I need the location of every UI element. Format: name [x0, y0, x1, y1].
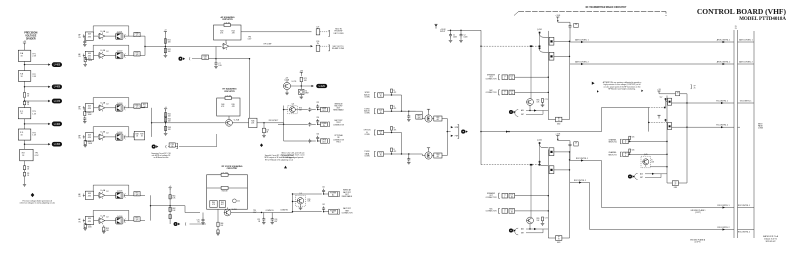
wire A from box to pin row 1 [241, 31, 312, 33]
wire to op-amp [94, 54, 100, 56]
wire main bus TX [547, 31, 549, 120]
node connector tick [82, 34, 84, 38]
wire supply rail TX [558, 21, 570, 23]
transistor Q9 dashed enclosure [296, 195, 306, 206]
svg-text:J1: J1 [504, 194, 506, 196]
connector box channel A [623, 139, 628, 143]
svg-text:CONN: CONN [364, 113, 370, 115]
net tag BIAS mid block [152, 145, 159, 149]
svg-text:COMM 1N: COMM 1N [266, 210, 275, 212]
svg-text:C36: C36 [316, 134, 319, 136]
op-amp U-3B [98, 133, 105, 140]
svg-text:R63 1M: R63 1M [222, 191, 228, 193]
svg-text:RXCONTRL 1: RXCONTRL 1 [738, 205, 750, 207]
wire rowB [293, 211, 322, 213]
wire mosfet out [124, 54, 145, 56]
wire gate net from DATA bus [481, 131, 602, 133]
resistor R105 divider box 3 [18, 108, 31, 119]
wire dashes pin row 1 [320, 31, 329, 33]
wire MIC row TX [515, 91, 549, 93]
junction marker diamond [31, 193, 35, 197]
svg-text:CONN: CONN [364, 155, 370, 157]
wire mosfet out [124, 136, 145, 138]
boundary line RF end drop [665, 12, 667, 16]
svg-text:U-70A: U-70A [234, 118, 240, 121]
svg-text:RF TRANSMITTER MAGIC CIRCUITRY: RF TRANSMITTER MAGIC CIRCUITRY [586, 6, 627, 9]
svg-text:1/2: 1/2 [106, 216, 108, 218]
svg-text:U-70C: U-70C [232, 209, 238, 211]
wire output bus TX [569, 41, 571, 119]
wire mosfet out [124, 35, 145, 37]
resistor R103 inline [23, 93, 25, 98]
component box 29 subcircuit [676, 92, 680, 96]
svg-text:+13: +13 [657, 89, 660, 91]
wire input row [384, 153, 402, 155]
svg-text:C86: C86 [632, 149, 635, 151]
wire merge Q11 Q12 [446, 119, 448, 156]
svg-text:SET: SET [521, 114, 524, 116]
svg-text:TP: TP [674, 182, 676, 184]
resistor R71 pull-up [300, 77, 302, 81]
power +9 Q12 [427, 148, 430, 150]
svg-text:+9: +9 [164, 30, 166, 32]
node connector tick [82, 106, 84, 110]
svg-text:1/2: 1/2 [106, 133, 108, 135]
svg-text:1N: 1N [511, 212, 513, 214]
svg-text:Q-104: Q-104 [117, 132, 123, 134]
resistor stack above row S-2 [391, 109, 393, 111]
wire tap to V-REF1 [25, 64, 49, 66]
resistor stack above row S-4 [391, 152, 393, 154]
svg-text:R52: R52 [88, 225, 91, 227]
wire to op-amp [94, 220, 100, 222]
wire supply feed [448, 29, 482, 31]
label RX CONTROL 2 cont [738, 229, 755, 231]
wire M6 out [672, 126, 687, 128]
svg-text:DIVIDER: DIVIDER [26, 38, 36, 41]
wire gate chain RX [481, 164, 539, 166]
resistor boxes Q12 output [434, 153, 442, 158]
capacitor C32 stack row1 [316, 104, 319, 108]
transistor Q7 with +5V [283, 82, 290, 89]
svg-text:S-4: S-4 [379, 153, 382, 155]
svg-text:IN: IN [380, 155, 382, 157]
net tag bottom block [174, 222, 181, 226]
svg-text:R7 to R Board in Rx adjoining: R7 to R Board in Rx adjoining circuit [265, 158, 294, 161]
svg-text:C22: C22 [237, 201, 240, 203]
resistor R32 under input 3 [84, 108, 86, 111]
svg-text:ANTCONTRL 2: ANTCONTRL 2 [739, 61, 752, 64]
wire Q12 out [432, 155, 434, 157]
mosfet pair Q-106 [116, 218, 123, 224]
resistor R104 inline [23, 101, 25, 105]
resistor R107 divider box 5 [20, 149, 33, 161]
svg-text:4K7: 4K7 [437, 119, 440, 121]
capacitor C7 on U2 minus input [215, 47, 217, 62]
wire op-amp to mosfet [105, 35, 116, 37]
power +9V pull-up column [300, 72, 303, 74]
wire to mosfet Q11 [409, 110, 423, 112]
connector pin box top row [316, 45, 320, 51]
connector boxes MIC TX [502, 90, 508, 95]
svg-text:COMM IN: COMM IN [280, 210, 288, 212]
wire mosfet out [124, 194, 145, 196]
wire feedback loop U-3B [93, 126, 129, 128]
net tag V-REF4 [48, 122, 62, 127]
capacitor C52 row34 [408, 154, 410, 157]
wire M2 out TX [554, 55, 570, 57]
connector box S-1 [378, 93, 384, 97]
net tag MOD-ADJ row [178, 57, 185, 61]
resistor R81 row12 [416, 115, 422, 120]
resistor R11 to ground under input 2 [84, 55, 86, 57]
wire block2 output [152, 122, 225, 124]
svg-text:29: 29 [575, 24, 577, 26]
wire Q25 to bus [650, 166, 667, 168]
svg-text:C34: C34 [316, 117, 319, 119]
junction marker note arrow left [592, 82, 595, 85]
svg-text:SELECT A: SELECT A [608, 141, 617, 144]
svg-text:1V: 1V [558, 120, 560, 122]
connector boxes SPKR RX [502, 193, 508, 198]
svg-text:1: 1 [504, 78, 505, 80]
wire subcircuit rail [659, 93, 687, 95]
capacitor C33 row2 [308, 122, 311, 126]
wire main bus RX [547, 149, 549, 238]
resistor R52 under row 6 input [84, 221, 86, 224]
wire mod-adj row [192, 58, 202, 60]
wire M1 out TX [554, 40, 570, 42]
svg-text:Q-106: Q-106 [117, 216, 123, 218]
wire comm input [278, 123, 284, 125]
svg-text:U-453: U-453 [54, 144, 61, 146]
op-amp U-4A [98, 192, 105, 199]
capacitor C23 to ground [263, 213, 265, 218]
wire tap to V-REF2 [25, 86, 49, 88]
resistor network U-1B input [85, 51, 93, 59]
wire output bus RX [569, 152, 571, 238]
svg-text:C23: C23 [257, 219, 260, 221]
svg-text:POWER: POWER [330, 210, 337, 212]
wire input [83, 54, 87, 56]
svg-text:1/2: 1/2 [106, 104, 108, 106]
label mux out 1 [451, 126, 453, 128]
svg-text:U-463: U-463 [54, 124, 61, 126]
resistor R26 on mod-adj [202, 55, 209, 59]
ground divider bottom [23, 185, 26, 187]
svg-text:S-3: S-3 [379, 131, 382, 133]
op-amp U2 comparator [222, 43, 229, 50]
node connector tick [82, 54, 84, 58]
wire to op-amp [94, 35, 100, 37]
svg-text:CONNECTOR: CONNECTOR [342, 212, 354, 214]
wire join rows 1-2 [401, 95, 403, 111]
svg-text:TXCONTRL 1: TXCONTRL 1 [740, 101, 752, 103]
svg-text:UNIT CONN: UNIT CONN [334, 33, 344, 35]
power +9V rail top of divider [23, 43, 26, 45]
resistor stack above row S-1 [391, 93, 393, 95]
svg-text:U-709: U-709 [292, 81, 297, 83]
svg-text:IN: IN [380, 133, 382, 135]
junction marker note tick bottom-left [597, 90, 599, 92]
svg-text:+13.8: +13.8 [555, 134, 560, 136]
wire row2 [284, 123, 308, 125]
svg-text:X1: X1 [305, 90, 307, 92]
svg-text:Q-103: Q-103 [117, 103, 123, 105]
transistor Q15 RF voice [224, 209, 231, 216]
divider RV2 on node B [165, 111, 167, 134]
net tag V-REF3 [48, 99, 62, 104]
wire row1 [295, 109, 308, 111]
mosfet M2 TX [539, 47, 541, 49]
capacitor C12 under input 3 [83, 116, 86, 120]
wire subcircuit main bus [666, 96, 668, 184]
wire MIC row RX [515, 210, 549, 212]
wire feedback loop U-4B [93, 209, 129, 211]
wire SPKR row TX [515, 76, 549, 78]
wire RT output [232, 122, 248, 124]
svg-text:4K7: 4K7 [221, 204, 224, 206]
resistor box RT output [249, 118, 257, 127]
svg-text:OUT: OUT [322, 110, 325, 112]
wire RX CONTROL 2 [570, 182, 590, 184]
svg-text:Q-101: Q-101 [117, 31, 123, 33]
resistor R37 second output row 3 [142, 103, 148, 107]
wire to op-amp [94, 194, 100, 196]
net tag DATA bus [461, 130, 468, 134]
mosfet pair Q-103 [116, 105, 123, 111]
wire op-amp to mosfet [105, 107, 116, 109]
svg-text:SET: SET [640, 177, 643, 179]
connector boxes MIC RX [502, 209, 508, 214]
svg-text:U-473: U-473 [54, 101, 61, 103]
svg-text:1/2: 1/2 [106, 51, 108, 53]
svg-text:C73: C73 [545, 99, 548, 101]
svg-text:R66: R66 [220, 223, 223, 225]
resistor R16 output [134, 52, 140, 56]
wire tap to V-REF5 [25, 143, 49, 145]
wire channel B row [628, 153, 667, 155]
node connector tick [82, 219, 84, 223]
connector box channel B [623, 152, 628, 156]
wire row3 [284, 140, 308, 142]
svg-text:MODEL PTTD4018A: MODEL PTTD4018A [739, 17, 786, 22]
capacitor C16 below RT output [263, 122, 264, 123]
svg-text:475: 475 [136, 35, 139, 37]
wire feedback box RT block [217, 98, 240, 116]
wire input [83, 107, 87, 109]
svg-text:C42: C42 [322, 204, 325, 206]
capacitor C61 inline RX [569, 141, 571, 143]
op-amp U-3A [98, 104, 105, 111]
svg-text:4K7: 4K7 [437, 156, 440, 158]
svg-text:KAP6105TLTL-A: KAP6105TLTL-A [763, 235, 779, 238]
resistor network U-3B input [85, 133, 93, 141]
svg-text:(2.5PT): (2.5PT) [695, 242, 701, 244]
svg-text:29: 29 [735, 28, 737, 30]
connector box S-2 [378, 109, 384, 113]
svg-text:47K: 47K [394, 129, 397, 131]
wire feedback loop U-3A [93, 97, 129, 99]
component box 29 TX [574, 23, 578, 27]
svg-text:CONN: CONN [758, 128, 764, 130]
connector pin box row 1 [316, 29, 320, 35]
crystal Y1 below node [299, 89, 304, 94]
svg-text:TP: TP [693, 85, 695, 87]
wire summing junction block2 [151, 108, 153, 137]
junction arrow top row [311, 45, 313, 47]
svg-text:R95: R95 [537, 218, 540, 220]
wire subcircuit out 2 [687, 126, 734, 128]
wire subcircuit out bus [686, 94, 688, 183]
capacitor C102 supply bypass [460, 30, 462, 33]
wire RF voice feedback box [207, 175, 248, 209]
wire SPKR row RX [515, 195, 549, 197]
power supply input arrow [434, 24, 437, 28]
resistor R101 divider box 1 [18, 50, 31, 61]
svg-text:U-429: U-429 [319, 86, 326, 88]
wire RT to comm [257, 122, 284, 124]
svg-text:C21 10N: C21 10N [221, 172, 228, 174]
svg-text:TP: TP [558, 118, 560, 120]
transistor Q21 RX [527, 217, 534, 224]
mosfet pair Q-105 [116, 192, 123, 198]
label RX CONTROL 1 cont [738, 207, 755, 209]
resistor R15 output [134, 32, 140, 36]
label TP bracket near note [690, 85, 693, 89]
wire to op-amp [94, 107, 100, 109]
ground under R11 [84, 62, 86, 64]
svg-text:C15 1N: C15 1N [225, 96, 231, 98]
svg-text:RXCONTRL 1: RXCONTRL 1 [717, 205, 729, 207]
svg-text:RF Board in just height conduc: RF Board in just height conducting. [608, 88, 636, 91]
resistor network U-4A input [85, 191, 93, 199]
connector box POWER A [329, 192, 338, 197]
connector box SPKR [321, 107, 328, 111]
svg-text:475: 475 [136, 107, 139, 109]
svg-text:Q-201: Q-201 [537, 140, 542, 142]
svg-text:2: 2 [504, 93, 505, 95]
wire feedback loop U-1B [93, 44, 129, 46]
resistor R63 inner [221, 187, 228, 190]
svg-text:475: 475 [136, 55, 139, 57]
wire input [83, 220, 87, 222]
connector box S-4 [378, 152, 384, 156]
capacitor C15 RT feedback [225, 97, 231, 100]
svg-text:RXCONTRL 2: RXCONTRL 2 [717, 227, 729, 229]
junction marker diamond near note [260, 143, 263, 147]
svg-text:C41: C41 [322, 187, 325, 189]
resistor R109 inline [23, 172, 25, 176]
transistor Q8 row [288, 106, 297, 114]
svg-text:OUT: OUT [322, 142, 325, 144]
wire input [83, 136, 87, 138]
wire block3 tap to RF voice block [184, 206, 186, 213]
capacitor C1 under input 1 [83, 40, 86, 44]
capacitor C24 to ground [271, 213, 273, 218]
capacitor C25 input shunt [202, 213, 204, 219]
svg-text:47K: 47K [394, 92, 397, 94]
svg-text:ANTCONTRL 1: ANTCONTRL 1 [575, 38, 588, 41]
svg-text:RXCONTRL 2: RXCONTRL 2 [574, 180, 586, 182]
capacitor C34 stack row2 [316, 119, 319, 123]
svg-text:+13.8: +13.8 [555, 15, 560, 17]
mosfet pair Q-101 [116, 33, 123, 39]
power +13.8 subcircuit [657, 91, 660, 93]
resistor R36 output [134, 133, 140, 137]
svg-text:C25: C25 [197, 219, 200, 221]
svg-text:RXCONTRL 2: RXCONTRL 2 [738, 232, 750, 234]
svg-text:475: 475 [136, 220, 139, 222]
connector box COMM [321, 122, 328, 126]
wire oval row dashes [190, 223, 207, 225]
junction marker arrow for note [284, 166, 287, 169]
wire dashes top row [320, 45, 329, 47]
svg-text:ANTCONTRL 2: ANTCONTRL 2 [717, 60, 730, 63]
svg-text:CIRCUITRY: CIRCUITRY [224, 91, 235, 93]
label ANT CONTROL 2 cont [738, 63, 755, 65]
testpoint box subcircuit bottom [672, 181, 678, 186]
wire combined row34 [402, 153, 423, 155]
net tag V-REF1 [48, 62, 62, 67]
svg-text:C85: C85 [632, 137, 635, 139]
wire rowA [293, 193, 322, 195]
svg-text:on B Board circuits: on B Board circuits [154, 156, 169, 159]
resistor boxes Q11 output [434, 116, 442, 121]
wire to op-amp [94, 136, 100, 138]
svg-text:U-4A: U-4A [101, 189, 106, 192]
capacitor C36 stack row3 [316, 136, 319, 140]
svg-text:1V: 1V [558, 239, 560, 241]
svg-text:1N: 1N [511, 93, 513, 95]
svg-text:U-4B: U-4B [101, 215, 106, 217]
svg-text:PNP: PNP [455, 136, 458, 138]
label ANT CONTROL 1 cont [738, 41, 755, 43]
svg-text:IN: IN [380, 96, 382, 98]
resistor R106 divider box 4 [18, 129, 31, 140]
svg-text:2: 2 [504, 212, 505, 214]
mosfet pair Q-104 [116, 134, 123, 140]
svg-text:R53: R53 [106, 228, 109, 230]
svg-text:25: 25 [694, 87, 696, 89]
resistor bank RF voice [210, 201, 217, 208]
capacitor C31 row1 [308, 107, 311, 111]
svg-text:1/2: 1/2 [106, 191, 108, 193]
wire divider chain vertical [24, 45, 26, 50]
svg-text:Q-8: Q-8 [291, 104, 294, 106]
connector boxes SPKR TX [502, 75, 508, 80]
svg-text:C2: C2 [464, 35, 466, 37]
op-amp U-1B [98, 52, 105, 59]
wire vertical bus middle rows [283, 106, 285, 142]
power +13.8V rail TX [556, 17, 559, 19]
svg-text:reference voltages in use by a: reference voltages in use by adjoining c… [20, 202, 55, 205]
svg-text:CONNECTOR: CONNECTOR [333, 124, 345, 126]
wire M1 out RX [554, 151, 570, 153]
wire vertical bus lower rows [292, 194, 294, 213]
component box 29 RX [574, 142, 578, 146]
wire bus bottom RX [548, 237, 569, 239]
resistor R108 inline [23, 166, 25, 170]
wire gate loop subcircuit [648, 108, 650, 132]
mosfet pair Q-102 [116, 52, 123, 58]
svg-text:ANTCONTRL 2: ANTCONTRL 2 [575, 60, 588, 63]
wire join rows 3-4 [401, 133, 403, 155]
wire input row [384, 132, 402, 134]
svg-text:J6: J6 [625, 153, 627, 155]
mosfet Q11 [425, 115, 432, 122]
connector box OPTION [321, 139, 328, 143]
